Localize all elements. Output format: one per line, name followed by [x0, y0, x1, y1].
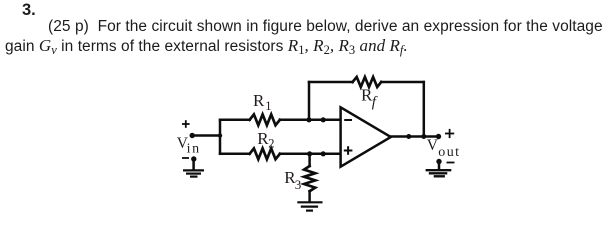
wire feedback left vertical [308, 82, 311, 120]
resistor R2 [250, 148, 280, 159]
wire Vout ground stem [438, 162, 441, 169]
wire bottom row right of R2 to op-amp [280, 153, 340, 156]
problem statement line 1 [48, 19, 603, 35]
node feedback/R1 junction dot [306, 117, 311, 122]
Vout minus sign [447, 162, 455, 164]
wire top row left of R1 [220, 119, 250, 122]
wire top row right of R1 to op-amp [280, 119, 340, 122]
Vin plus sign [182, 120, 190, 128]
svg-text:1: 1 [265, 99, 271, 113]
Vout plus sign [445, 129, 454, 138]
problem number [22, 2, 36, 19]
svg-text:out: out [438, 145, 460, 160]
op-amp U1 [341, 107, 391, 166]
svg-text:R: R [253, 91, 265, 110]
wire R3 bottom segment [308, 191, 311, 201]
problem statement line 2 [5, 37, 408, 55]
wire branch vertical [219, 120, 222, 154]
node top row dot [321, 117, 326, 122]
node branch junction dot [218, 133, 222, 137]
node bottom row dot [321, 151, 326, 156]
resistor Rf [353, 77, 382, 87]
wire feedback top left of Rf [309, 81, 353, 84]
svg-text:f: f [372, 95, 378, 111]
resistor R1 [250, 114, 280, 125]
node Vout- terminal dot [436, 159, 441, 164]
wire output row [391, 135, 439, 138]
wire Vin+ to branch node [192, 134, 220, 137]
svg-text:V: V [427, 137, 439, 154]
wire bottom row left of R2 [220, 153, 250, 156]
svg-text:2: 2 [268, 136, 274, 150]
Vin minus sign [182, 157, 189, 159]
ground under R3 [297, 202, 322, 210]
node feedback junction dot [421, 134, 426, 139]
op-amp minus input symbol [344, 119, 352, 121]
node R3/R2 junction dot [307, 151, 312, 156]
node Vin+ terminal dot [190, 133, 195, 138]
node Vin- terminal dot [191, 156, 196, 161]
wire R3 top segment [308, 154, 311, 166]
op-amp plus input symbol [344, 146, 353, 155]
wire Vin ground stem [192, 159, 195, 169]
svg-text:3: 3 [295, 177, 302, 192]
ground under Vout [426, 170, 452, 176]
wire feedback right vertical [423, 82, 426, 137]
wire feedback top right of Rf [381, 81, 424, 84]
svg-text:in: in [187, 142, 201, 157]
node output dot [406, 134, 411, 139]
node Vout+ terminal dot [436, 134, 441, 139]
resistor R3 [304, 166, 315, 191]
ground under Vin [183, 170, 204, 176]
